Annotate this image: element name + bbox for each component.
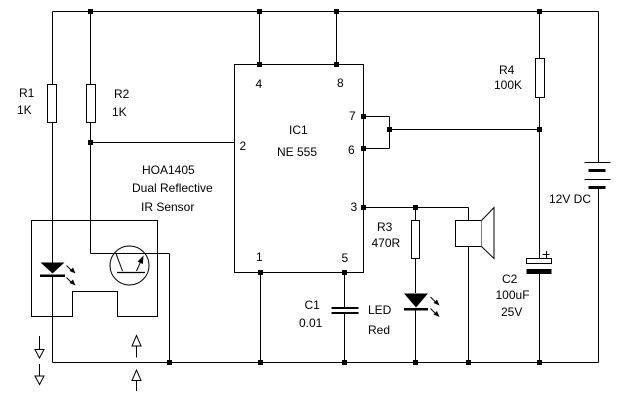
- wire pin 3 output: [364, 207, 469, 209]
- svg-text:HOA1405: HOA1405: [142, 163, 195, 177]
- wire pin 1 to bottom rail: [260, 273, 262, 363]
- signal indicator arrows below phototransistor: [132, 336, 141, 392]
- wire R3 top lead: [415, 208, 417, 221]
- svg-text:R4: R4: [499, 63, 515, 77]
- wire IR LED cathode to bottom rail: [52, 277, 54, 363]
- svg-text:LED: LED: [368, 303, 392, 317]
- svg-text:1K: 1K: [112, 105, 127, 119]
- svg-text:8: 8: [337, 76, 344, 90]
- capacitor C1 plates: [332, 307, 359, 314]
- junction node pin 5: [342, 270, 347, 275]
- junction node pin4 top rail: [257, 9, 262, 14]
- svg-text:1K: 1K: [17, 103, 32, 117]
- junction node phototransistor ground: [167, 360, 172, 365]
- wire pin 5 to C1: [344, 273, 346, 308]
- svg-text:R1: R1: [19, 86, 35, 100]
- wire battery top lead: [598, 12, 600, 163]
- wire phototransistor collector horizontal: [91, 253, 170, 255]
- junction node R4 top rail: [537, 9, 542, 14]
- svg-text:Red: Red: [368, 323, 390, 337]
- junction node pins 7/6 link: [387, 127, 392, 132]
- wire speaker top lead: [468, 208, 470, 221]
- wire pin 4 to top rail: [259, 12, 261, 65]
- junction node LED ground: [413, 360, 418, 365]
- wire C1 to bottom rail: [344, 314, 346, 363]
- svg-text:3: 3: [351, 200, 358, 214]
- resistor R3 body: [412, 221, 420, 259]
- IR emitter emission arrow lower: [67, 278, 76, 286]
- junction node pin8 top rail: [334, 9, 339, 14]
- IR emitter diode triangle and bar: [40, 263, 65, 278]
- capacitor C2 polarized plates: [527, 259, 552, 275]
- svg-text:100K: 100K: [494, 78, 522, 92]
- svg-text:25V: 25V: [501, 305, 522, 319]
- wire R4 top lead: [539, 12, 541, 59]
- svg-text:7: 7: [349, 109, 356, 123]
- capacitor C2 plus sign: [543, 251, 550, 258]
- junction node pin 8: [334, 62, 339, 67]
- junction node pin 3: [361, 205, 366, 210]
- junction node speaker ground: [466, 360, 471, 365]
- LED D2 emission arrow upper: [431, 297, 440, 306]
- junction node C1 ground: [342, 360, 347, 365]
- svg-text:100uF: 100uF: [496, 288, 530, 302]
- IC1 NE555 body outline: [235, 65, 364, 273]
- wire R4 bottom lead to C2 plus: [539, 98, 541, 259]
- junction node R2 bottom pin2: [88, 140, 93, 145]
- svg-text:12V DC: 12V DC: [549, 192, 591, 206]
- wire R1 bottom lead to IR LED: [52, 123, 54, 263]
- wire battery bottom lead: [598, 189, 600, 363]
- svg-text:C2: C2: [502, 272, 518, 286]
- junction node R4 bottom: [537, 127, 542, 132]
- svg-text:IC1: IC1: [289, 123, 308, 137]
- wire speaker bottom lead to bottom rail: [468, 247, 470, 363]
- wire pin 7 to pin 6 vertical link: [389, 117, 391, 149]
- wire LED cathode to bottom rail: [415, 311, 417, 363]
- svg-text:NE 555: NE 555: [277, 145, 317, 159]
- phototransistor Q1 circle: [110, 246, 149, 285]
- junction node pin 4: [257, 62, 262, 67]
- phototransistor Q1 base slant: [116, 254, 123, 272]
- phototransistor Q1 emitter bar: [117, 272, 145, 274]
- wire C2 minus to bottom rail: [539, 274, 541, 363]
- svg-text:6: 6: [348, 143, 355, 157]
- junction node R3 top: [413, 205, 418, 210]
- svg-text:0.01: 0.01: [299, 316, 323, 330]
- svg-text:5: 5: [342, 251, 349, 265]
- resistor R4 body: [536, 59, 545, 98]
- junction node pin 7: [361, 114, 366, 119]
- svg-text:4: 4: [256, 77, 263, 91]
- wire R1 top lead: [52, 12, 54, 85]
- wire top supply rail: [53, 11, 599, 13]
- svg-text:C1: C1: [305, 298, 321, 312]
- ground indicator arrows below IR emitter: [35, 336, 44, 385]
- wire R2 top lead: [90, 12, 92, 85]
- svg-text:R3: R3: [377, 220, 393, 234]
- wire pin 8 to top rail: [336, 12, 338, 65]
- HOA1405 sensor module outline: [32, 221, 158, 317]
- svg-text:470R: 470R: [372, 236, 401, 250]
- wire phototransistor drop to bottom rail: [169, 254, 171, 363]
- wire pin 6 stub: [364, 148, 390, 150]
- speaker SP1: [456, 208, 495, 259]
- IR emitter emission arrow upper: [67, 266, 76, 274]
- resistor R2 body: [87, 85, 96, 123]
- junction node pin1 ground: [258, 360, 263, 365]
- junction node pin 6: [361, 146, 366, 151]
- wire R2 bottom lead to phototransistor: [90, 123, 92, 254]
- battery B1 cells: [585, 162, 611, 189]
- svg-text:IR Sensor: IR Sensor: [141, 200, 194, 214]
- phototransistor Q1 emitter arrow: [137, 256, 144, 272]
- wire R3 bottom lead to LED anode: [415, 259, 417, 293]
- LED D2 emission arrow lower: [431, 309, 440, 318]
- junction node R2 top rail: [88, 9, 93, 14]
- resistor R1 body: [48, 85, 57, 123]
- wire pins 7/6 to R4 bottom: [390, 129, 540, 131]
- svg-text:Dual Reflective: Dual Reflective: [132, 181, 213, 195]
- wire pin 2 to R2 junction: [91, 142, 235, 144]
- wire bottom ground rail: [53, 362, 599, 364]
- svg-text:1: 1: [256, 250, 263, 264]
- LED D2 red indicator triangle and bar: [404, 294, 428, 311]
- junction node pin 1: [258, 270, 263, 275]
- svg-text:2: 2: [240, 139, 247, 153]
- svg-text:R2: R2: [114, 87, 130, 101]
- junction node C2 ground: [537, 360, 542, 365]
- wire pin 7 stub: [364, 116, 390, 118]
